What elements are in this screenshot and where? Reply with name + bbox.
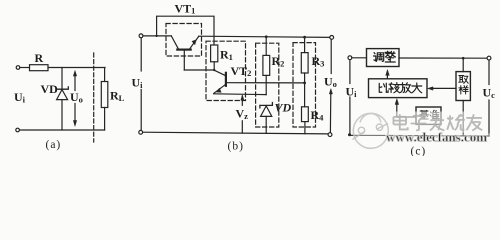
Vz lower shaft — [241, 121, 243, 133]
watermark logo left eye — [358, 127, 364, 133]
arrow comparison to adjust — [386, 73, 388, 79]
wire diode VD bottom — [61, 100, 63, 130]
R2 bottom lead — [265, 75, 267, 94]
svg-text:www.elecfans.com: www.elecfans.com — [386, 130, 487, 145]
dashed box reference (R2 VD) — [256, 43, 279, 127]
R3 bottom lead — [304, 73, 306, 107]
Uo arrow lower head — [73, 121, 76, 126]
text qu-yang (sampling) vertical — [459, 76, 468, 84]
Uo arrow lower shaft — [74, 104, 76, 123]
tap wire to VT2 base — [227, 82, 305, 84]
svg-text:(b): (b) — [228, 141, 244, 153]
arrowhead into comparison — [428, 87, 433, 90]
svg-text:VD: VD — [41, 82, 59, 96]
Uo arrow upper shaft — [74, 74, 76, 91]
watermark text dian-zi-fa-shao-you — [393, 114, 407, 129]
comparison amplifier block box — [369, 79, 428, 98]
dashed box sampling (R3 R4) — [293, 43, 316, 127]
zener diode VD cathode bar — [56, 87, 68, 92]
watermark wash — [388, 112, 485, 134]
VT2 collector lead — [214, 70, 226, 76]
watermark logo arc — [360, 114, 381, 123]
junction dot tap — [303, 82, 306, 85]
wire reference to riser — [397, 116, 416, 118]
VT1 collector lead — [171, 36, 178, 49]
wire top-left to resistor R — [20, 67, 30, 69]
bottom-right terminal (b) — [328, 133, 332, 137]
Vz arrow upper shaft with head — [241, 96, 243, 105]
bottom rail (b) — [143, 132, 329, 134]
resistor R1 — [211, 45, 218, 62]
input terminal (b) — [139, 34, 143, 38]
input terminal bottom (a) — [16, 128, 20, 132]
top-right terminal (c) — [487, 56, 491, 60]
sampling block box — [456, 72, 470, 101]
reference block box — [416, 107, 441, 124]
zener VD (b) cathode bar — [260, 103, 273, 108]
junction dot base node — [213, 69, 215, 71]
left wire lower segment (b) — [140, 90, 142, 131]
Chinese block text — [373, 51, 468, 119]
R2 top lead — [265, 37, 267, 56]
bottom-left terminal (b) — [139, 130, 143, 134]
top rail (c) — [399, 57, 487, 59]
left wire upper segment (b) — [140, 38, 142, 71]
wire diode VD branch top — [61, 68, 63, 89]
arrowhead up into adjust — [386, 70, 389, 76]
svg-text:(c): (c) — [411, 146, 427, 157]
VT2 emitter wire to zener — [214, 93, 267, 96]
wire resistor R to right branch — [48, 67, 105, 69]
right wire lower segment (c) — [488, 100, 490, 136]
bottom rail (c) — [350, 134, 489, 137]
right wire upper segment (b) — [330, 39, 332, 73]
zener VD (b) bottom lead — [265, 116, 267, 133]
right wire lower segment (b) — [329, 92, 331, 133]
resistor RL — [101, 82, 108, 108]
watermark wash url — [385, 134, 490, 143]
resistor R — [30, 65, 49, 71]
top-left terminal (c) — [348, 56, 352, 60]
VT1 base lead down — [183, 51, 185, 70]
wire sampling box down to rail — [462, 101, 464, 136]
bottom-left junction (c) — [348, 133, 351, 136]
output rail (b) — [199, 36, 331, 37]
svg-text:(a): (a) — [46, 139, 62, 151]
resistor R3 — [301, 53, 308, 73]
zener diode VD triangle — [57, 90, 68, 100]
junction dot R2 rail — [265, 35, 268, 38]
watermark logo circle — [353, 113, 388, 148]
VT2 emitter arrowhead — [217, 88, 222, 92]
top-right terminal (b) — [330, 36, 334, 40]
svg-text:R: R — [35, 51, 44, 65]
wire right branch down to RL — [104, 68, 106, 82]
transistor VT2 base bar — [225, 73, 227, 86]
resistor R2 — [263, 55, 270, 75]
left wire lower segment (c) — [349, 97, 351, 135]
watermark logo right eye — [376, 124, 382, 130]
text bi-jiao-fang-da (comparison amplify) — [379, 83, 388, 92]
node wire VT1 base to R1 bottom — [184, 69, 214, 71]
arrowhead up into comparison — [395, 99, 398, 105]
junction dot loop-input — [155, 35, 157, 37]
wire terminal to adjust box — [352, 57, 367, 59]
junction dot sampling rail — [462, 57, 465, 60]
R4 bottom lead — [304, 122, 306, 134]
resistor R4 — [302, 107, 309, 122]
dashed box VT1 (adjust block) — [166, 24, 202, 57]
adjust block box — [367, 49, 400, 67]
input wire to VT1 collector — [143, 35, 171, 37]
junction dot R3 rail — [303, 36, 306, 39]
text ji-zhun (reference) — [420, 110, 429, 119]
transistor VT1 base bar — [177, 48, 190, 50]
dashed separator line (a) — [93, 53, 95, 142]
wire sampling to comparison — [431, 87, 457, 89]
VT1 emitter lead — [190, 36, 199, 49]
Vz arrowhead — [241, 95, 244, 100]
text tiao-zheng (adjust) — [373, 53, 383, 62]
riser wire reference to comparison — [396, 103, 398, 118]
R1 bottom lead — [213, 62, 215, 70]
R3 top lead — [304, 37, 306, 52]
left wire upper segment (c) — [349, 60, 351, 84]
right wire upper segment (c) — [488, 60, 490, 85]
bottom wire (a) — [20, 129, 105, 131]
Uo arrowhead (b) — [329, 89, 332, 94]
svg-text:VD: VD — [275, 101, 292, 115]
VT1 emitter arrowhead — [192, 40, 196, 45]
watermark logo base line — [353, 124, 389, 140]
wire RL bottom — [104, 108, 106, 131]
input terminal top (a) — [16, 66, 20, 70]
zener VD (b) triangle — [261, 106, 272, 117]
Uo arrow upper head — [73, 71, 76, 76]
VT2 emitter lead — [214, 84, 226, 93]
dashed box comparison amplifier (R1 VT2) — [206, 41, 246, 100]
wire rail down to sampling box — [462, 58, 464, 71]
top loop wire over VT1 — [157, 16, 214, 45]
